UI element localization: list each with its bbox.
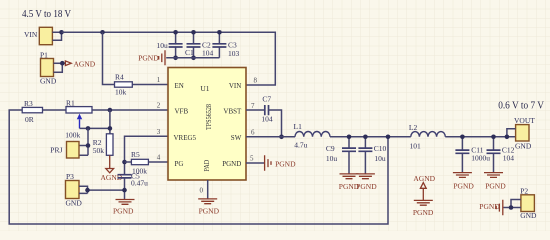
svg-text:0.47u: 0.47u [131, 179, 148, 188]
wire wiper to R2 [80, 110, 110, 134]
svg-text:0R: 0R [25, 115, 34, 124]
svg-text:104: 104 [202, 49, 214, 58]
svg-text:PGND: PGND [453, 182, 474, 191]
svg-text:PGND: PGND [275, 160, 296, 169]
node VOUT junction [505, 135, 510, 140]
svg-text:PGND: PGND [138, 53, 159, 62]
svg-text:GND: GND [515, 142, 532, 151]
svg-text:SW: SW [231, 134, 242, 142]
wire VIN top rail [62, 32, 276, 85]
inductor L1 [294, 122, 331, 150]
node P1 junction [60, 61, 65, 66]
wire SW rail [246, 136, 516, 138]
svg-text:10u: 10u [374, 154, 386, 163]
svg-text:VFB: VFB [175, 108, 189, 116]
svg-text:R1: R1 [66, 99, 75, 108]
node P2 junction [509, 205, 514, 210]
power port AGND tie [413, 174, 435, 200]
svg-text:L2: L2 [409, 123, 418, 132]
node VFB junction [108, 108, 113, 113]
svg-text:P2: P2 [520, 186, 528, 195]
node C2 top [191, 30, 196, 35]
connector P1 VIN [24, 27, 52, 44]
svg-text:R3: R3 [24, 99, 33, 108]
svg-text:PG: PG [175, 160, 184, 168]
svg-text:10u: 10u [326, 154, 338, 163]
svg-text:PRJ: PRJ [50, 145, 62, 154]
resistor R4 [115, 73, 133, 97]
svg-text:10k: 10k [115, 88, 127, 97]
svg-text:VIN: VIN [229, 82, 241, 90]
node C9 top [347, 135, 352, 140]
node C5 P3 junction [122, 188, 127, 193]
svg-text:U1: U1 [200, 84, 209, 93]
connector PRJ [50, 142, 79, 159]
svg-text:0.6 V to 7 V: 0.6 V to 7 V [498, 100, 545, 111]
svg-text:4.5 V to 18 V: 4.5 V to 18 V [22, 9, 72, 20]
power port PGND below C10 [356, 174, 377, 191]
svg-text:PGND: PGND [479, 202, 500, 211]
svg-text:5: 5 [250, 155, 254, 163]
capacitor C11 [455, 137, 490, 173]
svg-text:0: 0 [200, 186, 204, 194]
svg-text:R5: R5 [131, 150, 140, 159]
node C3 top [217, 30, 222, 35]
power port PGND below PAD [198, 199, 219, 216]
svg-text:101: 101 [410, 141, 422, 150]
svg-text:104: 104 [503, 154, 515, 163]
wire R5 to PG pin [125, 161, 169, 163]
svg-text:C10: C10 [374, 144, 387, 153]
svg-text:6: 6 [251, 129, 255, 137]
capacitor C2 [187, 32, 214, 58]
node SW junction [279, 135, 284, 140]
svg-text:VOUT: VOUT [514, 116, 535, 125]
svg-text:3: 3 [157, 128, 161, 136]
wire P3 pins [79, 186, 125, 193]
node C2 bottom [191, 56, 196, 61]
power port AGND below R2 [101, 155, 123, 182]
wire VBST to C7 [246, 109, 265, 111]
power port PGND below C12 [484, 173, 506, 191]
connector P2 [520, 186, 537, 220]
wire R4 branch [103, 32, 169, 84]
svg-text:R4: R4 [115, 73, 124, 82]
node wiper junction [86, 126, 91, 131]
resistor R2 [93, 134, 113, 156]
capacitor C7 [261, 95, 273, 124]
power port AGND arrow [65, 59, 95, 68]
power port PGND below C11 [453, 173, 475, 191]
svg-text:PGND: PGND [199, 207, 220, 216]
node R5 junction [122, 160, 127, 165]
wire C7 to SW [269, 110, 282, 137]
svg-text:4.7u: 4.7u [294, 141, 307, 150]
svg-text:GND: GND [66, 199, 83, 208]
node P3 junction [85, 188, 90, 193]
connector VOUT [514, 116, 535, 151]
potentiometer R1 [65, 99, 92, 140]
svg-text:VREG5: VREG5 [174, 134, 197, 142]
node VIN junction [59, 30, 64, 35]
op-amp U1 TPS56528 [168, 68, 246, 181]
node C11 top [460, 135, 465, 140]
wire PAD ground [207, 180, 209, 199]
wire VIN pins [52, 32, 61, 40]
node PRJ junction [86, 143, 91, 148]
wire R3 to R1 [43, 109, 67, 111]
node C10 top [363, 135, 368, 140]
svg-text:7: 7 [251, 102, 255, 110]
svg-text:AGND: AGND [413, 174, 435, 183]
capacitor C1 [157, 32, 195, 58]
svg-text:1000u: 1000u [471, 154, 490, 163]
wire feedback loop [9, 110, 388, 224]
svg-text:VIN: VIN [24, 30, 38, 39]
resistor R5 [131, 150, 148, 175]
svg-text:50k: 50k [93, 146, 105, 155]
svg-text:2: 2 [157, 102, 161, 110]
connector P3 [66, 172, 83, 207]
power port PGND tie [413, 200, 434, 216]
svg-text:104: 104 [261, 115, 273, 124]
wire P1 pins [54, 63, 66, 72]
svg-text:PGND: PGND [413, 208, 434, 217]
svg-text:C7: C7 [262, 95, 271, 104]
svg-text:GND: GND [520, 211, 537, 220]
wire P2 pins [503, 200, 521, 208]
power port PGND at P2 [479, 200, 503, 216]
svg-text:L1: L1 [294, 122, 303, 131]
svg-text:100k: 100k [65, 131, 80, 140]
svg-text:8: 8 [254, 77, 258, 85]
wire capacitor ground rail [166, 57, 219, 59]
power port PGND at pin 5 [246, 155, 296, 171]
capacitor C9 [326, 137, 356, 174]
capacitor C5 [118, 172, 149, 200]
power port PGND left of C1 [138, 50, 165, 65]
svg-text:10u: 10u [157, 41, 169, 50]
connector P1 [40, 51, 57, 86]
wire VREG5 branch [125, 136, 169, 174]
svg-text:PGND: PGND [485, 182, 506, 191]
svg-text:1: 1 [157, 76, 161, 84]
wire VOUT pins [507, 129, 516, 137]
svg-text:C9: C9 [326, 144, 335, 153]
node C1 bottom [173, 56, 178, 61]
node C12 top [491, 135, 496, 140]
inductor L2 [409, 123, 445, 150]
svg-text:TPS56528: TPS56528 [205, 104, 213, 130]
svg-text:PGND: PGND [222, 160, 241, 168]
power port PGND below C5 [113, 200, 135, 216]
resistor R3 [22, 99, 42, 124]
capacitor C12 [487, 137, 515, 173]
svg-text:GND: GND [40, 77, 57, 86]
wire PRJ branch [79, 128, 88, 155]
svg-text:4: 4 [157, 154, 161, 162]
capacitor C10 [358, 137, 386, 174]
wire R1 to VFB pin [92, 109, 168, 111]
node feedback junction [386, 135, 391, 140]
svg-text:PGND: PGND [113, 207, 134, 216]
node R4 tap [100, 30, 105, 35]
power port PGND below C9 [339, 174, 360, 191]
node C1 top [173, 30, 178, 35]
capacitor C3 [212, 32, 239, 58]
svg-text:AGND: AGND [74, 59, 96, 68]
svg-text:VBST: VBST [223, 108, 242, 116]
svg-text:103: 103 [228, 49, 240, 58]
svg-text:EN: EN [175, 82, 184, 90]
node R2 top junction [108, 126, 113, 131]
svg-text:PAD: PAD [203, 160, 211, 172]
svg-text:PGND: PGND [356, 182, 377, 191]
